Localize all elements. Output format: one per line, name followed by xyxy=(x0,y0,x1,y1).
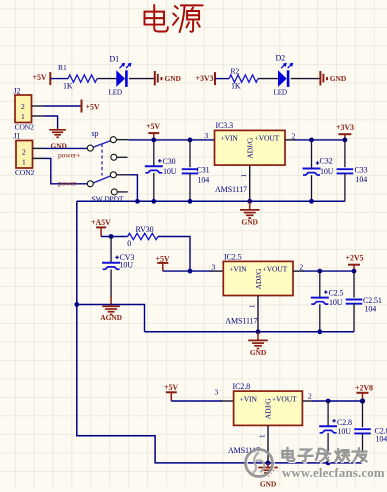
svg-text:+VOUT: +VOUT xyxy=(272,394,297,403)
net label power+ xyxy=(58,150,80,159)
wire +A5V to RV30 xyxy=(101,236,128,238)
connector J2 (CON2) xyxy=(14,87,35,132)
capacitor C31 104 xyxy=(182,140,210,201)
svg-text:AMS1117: AMS1117 xyxy=(215,185,247,194)
LED D2 xyxy=(274,53,294,96)
svg-text:AMS1117: AMS1117 xyxy=(225,317,257,326)
ground AGND xyxy=(100,305,122,323)
regulator IC3.3 AMS1117 xyxy=(215,121,286,194)
svg-text:CON2: CON2 xyxy=(15,123,35,132)
svg-text:0: 0 xyxy=(127,239,131,248)
svg-text:1: 1 xyxy=(21,112,25,121)
svg-text:+VIN: +VIN xyxy=(240,394,258,403)
wire +5V to IC2.5 VIN xyxy=(163,270,224,272)
junction C2.8 top xyxy=(326,399,331,404)
svg-text:R1: R1 xyxy=(58,63,67,72)
svg-text:D1: D1 xyxy=(110,54,120,63)
ground GND (LED row 2) xyxy=(320,71,346,85)
svg-text:ADJ/G: ADJ/G xyxy=(245,137,254,158)
svg-text:IC2.8: IC2.8 xyxy=(233,382,251,391)
svg-text:IC2.5: IC2.5 xyxy=(224,252,242,261)
svg-text:2: 2 xyxy=(300,263,304,272)
wire R1 to D1 xyxy=(97,78,116,80)
capacitor C2.5 10U xyxy=(311,271,344,332)
power port +5V (LED row 1) xyxy=(33,72,51,85)
svg-text:104: 104 xyxy=(376,434,387,443)
capacitor C32 10U xyxy=(303,140,334,201)
capacitor C2.8 104 (second) xyxy=(354,401,387,463)
svg-text:10U: 10U xyxy=(320,167,334,176)
wire IC3.3 pin1 to ground xyxy=(249,165,251,202)
ground rail row 2 xyxy=(145,331,355,333)
pin 3 label (IC2.5) xyxy=(212,263,216,272)
svg-text:ADJ/G: ADJ/G xyxy=(254,268,263,289)
svg-text:3: 3 xyxy=(212,263,216,272)
svg-text:RV30: RV30 xyxy=(136,225,154,234)
svg-text:1: 1 xyxy=(22,158,26,167)
svg-text:1K: 1K xyxy=(63,81,73,90)
wire J2 pin1 to GND xyxy=(32,116,58,129)
wire IC2.8 output to +2V8 xyxy=(302,400,362,402)
junction rail3/pin1 xyxy=(266,461,271,466)
svg-text:3: 3 xyxy=(205,131,209,140)
wire R2 to D2 xyxy=(258,78,278,80)
wire IC2.5 pin1 to ground xyxy=(257,296,259,333)
svg-text:+A5V: +A5V xyxy=(91,218,111,227)
svg-text:C30: C30 xyxy=(163,157,176,166)
svg-text:+VIN: +VIN xyxy=(229,265,247,274)
junction C32 top xyxy=(309,138,314,143)
svg-text:J1: J1 xyxy=(14,132,21,141)
pin 3 label (IC3.3) xyxy=(205,131,209,140)
svg-text:C2.5: C2.5 xyxy=(329,288,344,297)
svg-text:1K: 1K xyxy=(231,81,241,90)
resistor R2 xyxy=(229,66,258,90)
svg-text:10U: 10U xyxy=(329,298,343,307)
svg-text:1: 1 xyxy=(258,434,267,438)
wire IC2.8 pin1 to ground xyxy=(267,425,269,463)
svg-text:LED: LED xyxy=(109,89,122,97)
svg-text:CON2: CON2 xyxy=(15,168,35,177)
svg-text:GND: GND xyxy=(242,218,259,227)
svg-text:C33: C33 xyxy=(355,165,368,174)
watermark elecfans logo and text xyxy=(246,448,386,481)
power port +A5V xyxy=(91,218,111,236)
svg-text:D2: D2 xyxy=(276,53,286,62)
svg-text:1: 1 xyxy=(248,304,257,308)
svg-text:power-: power- xyxy=(58,178,79,187)
svg-text:GND: GND xyxy=(260,479,277,487)
power port +5V (IC3.3 input) xyxy=(146,122,160,140)
junction rail/C32 xyxy=(309,199,314,204)
junction CV3 top xyxy=(109,234,114,239)
svg-text:GND: GND xyxy=(51,142,68,151)
svg-text:C32: C32 xyxy=(320,156,333,165)
svg-text:+5V: +5V xyxy=(156,254,170,263)
svg-text:C31: C31 xyxy=(197,165,210,174)
svg-text:+3V3: +3V3 xyxy=(196,74,214,83)
power port +2V5 (IC2.5 output) xyxy=(346,253,364,271)
pin 2 label (IC2.8) xyxy=(308,392,312,401)
pin 3 label (IC2.8) xyxy=(215,388,219,397)
svg-text:+3V3: +3V3 xyxy=(336,123,354,132)
junction rail2/pin1 xyxy=(256,329,261,334)
wire J1 pin1 to switch (power-) xyxy=(33,158,88,183)
junction rail/pole B xyxy=(135,199,140,204)
svg-text:+VIN: +VIN xyxy=(221,134,239,143)
junction rail/C31 xyxy=(188,199,193,204)
ground rail row 1 xyxy=(77,200,345,202)
svg-text:10U: 10U xyxy=(163,167,177,176)
capacitor C30 10U xyxy=(145,140,177,201)
svg-text:10U: 10U xyxy=(120,261,134,270)
ground GND (J2) xyxy=(49,129,67,151)
svg-text:sp: sp xyxy=(92,129,99,138)
wire switch pole A to +5V rail xyxy=(129,139,215,141)
svg-text:ADJ/G: ADJ/G xyxy=(264,398,273,419)
svg-text:2: 2 xyxy=(21,102,25,111)
ground GND (LED row 1) xyxy=(155,71,182,85)
svg-text:2: 2 xyxy=(22,148,26,157)
junction rail/C30 xyxy=(151,199,156,204)
power port +5V (J2) xyxy=(82,100,100,113)
svg-text:104: 104 xyxy=(365,305,377,314)
left ground rail (vertical) xyxy=(77,201,363,463)
net label power- xyxy=(58,178,79,187)
svg-text:GND: GND xyxy=(165,74,182,83)
svg-text:2: 2 xyxy=(292,131,296,140)
svg-text:+2V8: +2V8 xyxy=(355,383,373,392)
wire RV30 to +5V node xyxy=(158,237,190,272)
power port +2V8 (IC2.8 output) xyxy=(355,383,373,401)
pin 2 label (IC3.3) xyxy=(292,131,296,140)
svg-text:104: 104 xyxy=(198,175,210,184)
pin 1 label (IC2.8) xyxy=(258,434,267,438)
wire D1 to GND xyxy=(129,78,154,80)
svg-text:power+: power+ xyxy=(58,150,80,159)
LED D1 xyxy=(109,54,132,96)
wire +5V to R1 xyxy=(50,78,68,80)
regulator IC2.8 AMS1117 xyxy=(228,382,302,455)
svg-text:AGND: AGND xyxy=(100,313,122,322)
switch SW-DPDT sp xyxy=(87,129,129,204)
wire D2 to GND xyxy=(291,78,320,80)
svg-text:2: 2 xyxy=(308,392,312,401)
ground GND (IC2.5) xyxy=(248,332,268,357)
svg-text:104: 104 xyxy=(356,175,368,184)
resistor RV30 (0 ohm) xyxy=(127,225,158,248)
power port +3V3 (IC3.3 output) xyxy=(336,123,354,140)
capacitor CV3 10U xyxy=(102,237,134,305)
capacitor C2.8 10U xyxy=(319,401,352,463)
svg-text:LED: LED xyxy=(274,89,287,97)
title 电源 (power) xyxy=(144,5,202,32)
junction rail3/C2.8 xyxy=(326,461,331,466)
svg-text:C2.8: C2.8 xyxy=(337,418,352,427)
junction C2.5 top xyxy=(317,269,322,274)
wire J2 pin2 to +5V xyxy=(32,105,82,107)
pin 2 label (IC2.5) xyxy=(300,263,304,272)
regulator IC2.5 AMS1117 xyxy=(223,252,293,325)
pin 1 label (IC2.5) xyxy=(248,304,257,308)
power port +3V3 (LED row 2) xyxy=(196,72,216,85)
power port +5V (IC2.5 input) xyxy=(156,254,170,271)
junction +2V5 xyxy=(352,269,357,274)
pin 1 label (IC3.3) xyxy=(239,174,248,178)
svg-text:1: 1 xyxy=(239,174,248,178)
junction +3V3 xyxy=(343,138,348,143)
svg-text:+5V: +5V xyxy=(146,122,160,131)
junction AGND/left rail xyxy=(74,302,79,307)
power port +5V (IC2.8 input) xyxy=(164,383,178,401)
svg-text:IC3.3: IC3.3 xyxy=(216,121,234,130)
svg-text:+VOUT: +VOUT xyxy=(263,265,288,274)
svg-text:+5V: +5V xyxy=(86,102,100,111)
ground GND (IC2.8) xyxy=(258,463,278,489)
junction +2V8 xyxy=(360,398,365,403)
wire switch pole B down to ground rail xyxy=(129,175,137,202)
wire J1 pin2 to switch (power+) xyxy=(33,147,88,149)
junction rail/pin1 xyxy=(247,199,252,204)
svg-text:GND: GND xyxy=(330,74,347,83)
svg-text:R2: R2 xyxy=(231,66,240,75)
connector J1 (CON2) xyxy=(14,132,35,177)
svg-text:+VOUT: +VOUT xyxy=(255,134,280,143)
svg-text:+5V: +5V xyxy=(164,383,178,392)
wire IC2.5 output to +2V5 xyxy=(293,270,354,272)
capacitor C33 104 xyxy=(337,140,368,201)
junction C31 top xyxy=(188,138,193,143)
svg-text:3: 3 xyxy=(215,388,219,397)
svg-text:www.elecfans.com: www.elecfans.com xyxy=(282,466,385,480)
svg-text:GND: GND xyxy=(250,348,267,357)
resistor R1 xyxy=(58,63,97,91)
junction RV30/+5V node xyxy=(188,269,193,274)
svg-text:+5V: +5V xyxy=(33,73,47,82)
wire +3V3 to R2 xyxy=(215,78,229,80)
ground GND (IC3.3) xyxy=(240,201,260,226)
wire IC3.3 output to +3V3 xyxy=(285,139,345,141)
capacitor C2.51 104 xyxy=(346,271,382,332)
svg-text:10U: 10U xyxy=(338,427,352,436)
junction rail2/C2.5 xyxy=(317,329,322,334)
svg-text:SW DPDT: SW DPDT xyxy=(92,195,124,204)
svg-text:+2V5: +2V5 xyxy=(346,253,364,262)
wire +5V to IC2.8 VIN xyxy=(171,400,233,402)
junction C30/+5V xyxy=(151,138,156,143)
wire AGND branch xyxy=(77,305,145,332)
